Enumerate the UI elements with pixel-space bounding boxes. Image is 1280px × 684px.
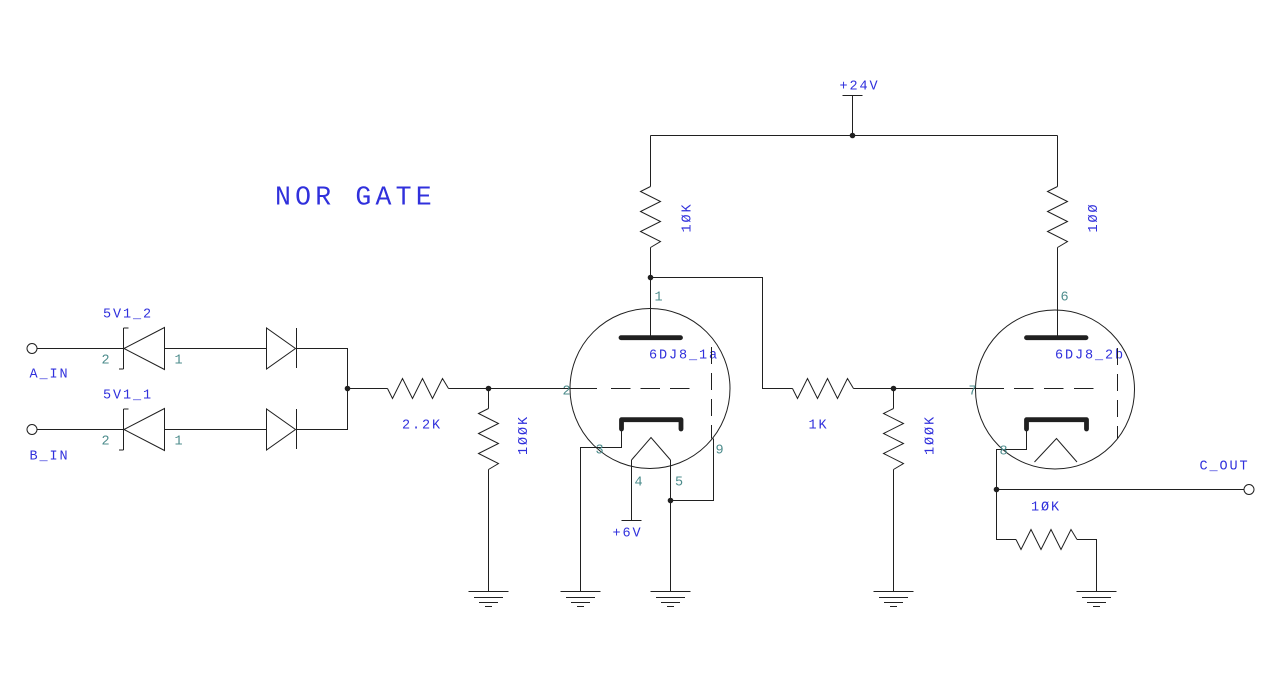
svg-text:5V1_2: 5V1_2: [103, 308, 153, 323]
power +24V: [843, 96, 863, 136]
wire R1K to tube2 grid: [854, 388, 1005, 390]
svg-text:1ØØK: 1ØØK: [517, 415, 532, 455]
power +6V: [622, 520, 642, 522]
tube2 cathode lead: [997, 431, 1027, 490]
ground (below 100K right): [874, 592, 914, 607]
svg-text:1: 1: [175, 435, 185, 450]
svg-text:7: 7: [969, 385, 979, 400]
svg-text:4: 4: [635, 476, 645, 491]
wire plate1 to R1K: [651, 278, 793, 389]
resistor 10K (cathode): [997, 490, 1097, 592]
tube2 cathode bar: [1027, 420, 1087, 429]
svg-text:+24V: +24V: [840, 80, 880, 95]
terminal B_IN: [27, 425, 37, 435]
tube2 shield (dashed): [1117, 348, 1119, 439]
ground (tube1 heater): [651, 592, 691, 607]
svg-text:NOR GATE: NOR GATE: [275, 183, 436, 213]
tube 6DJ8_1a envelope: [570, 309, 730, 469]
node plate junction: [648, 275, 654, 281]
svg-text:1ØK: 1ØK: [1031, 501, 1061, 516]
wire R2.2K to tube1 grid: [449, 388, 598, 390]
resistor 10K (plate load): [641, 136, 661, 278]
svg-text:6: 6: [1061, 291, 1071, 306]
wire junction to R 2.2K: [348, 388, 388, 390]
wire diode B to junction: [297, 389, 348, 430]
svg-text:8: 8: [1000, 445, 1010, 460]
resistor 100K (left): [479, 389, 499, 592]
node pin5/pin9 junction: [668, 498, 674, 504]
node +24V junction: [850, 133, 856, 139]
resistor 100K (right): [884, 389, 904, 592]
diode row B: [267, 409, 297, 450]
tube2 plate bar: [1027, 335, 1087, 340]
resistor 100 (tube2 plate load): [1048, 136, 1068, 338]
zener diode 5V1_1: [119, 409, 165, 451]
ground (tube1 cathode): [561, 592, 601, 607]
tube1 cathode bar: [622, 420, 682, 429]
tube1 plate bar: [621, 335, 681, 340]
tube1 heater leg pin5: [670, 460, 672, 592]
resistor 2.2K: [388, 379, 449, 399]
svg-text:B_IN: B_IN: [30, 450, 70, 465]
svg-text:1: 1: [655, 291, 665, 306]
tube2 heater: [1035, 439, 1078, 463]
terminal C_OUT: [1244, 485, 1254, 495]
tube1 heater: [632, 438, 671, 461]
svg-text:1K: 1K: [809, 419, 829, 434]
svg-text:5V1_1: 5V1_1: [103, 389, 153, 404]
node grid junction 1: [486, 386, 492, 392]
tube1 heater leg pin4: [631, 460, 633, 521]
tube2 grid (dashed): [1014, 388, 1094, 390]
svg-text:2: 2: [102, 435, 112, 450]
svg-text:3: 3: [596, 444, 606, 459]
tube1 cathode lead: [581, 431, 622, 592]
svg-text:1: 1: [175, 354, 185, 369]
wire A_IN lead: [37, 348, 124, 350]
node cathode output junction: [994, 487, 1000, 493]
svg-text:2: 2: [102, 354, 112, 369]
svg-text:2: 2: [563, 385, 573, 400]
wire +24V rail: [651, 135, 1058, 137]
zener diode 5V1_2: [119, 328, 165, 370]
wire pin9 to pin5: [671, 439, 714, 501]
svg-text:A_IN: A_IN: [30, 368, 70, 383]
svg-text:1ØK: 1ØK: [681, 202, 696, 232]
svg-text:6DJ8_2b: 6DJ8_2b: [1055, 349, 1125, 364]
resistor 1K: [793, 379, 854, 399]
ground (below 10K cathode): [1077, 592, 1117, 607]
svg-text:5: 5: [675, 476, 685, 491]
tube1 shield (dashed): [711, 347, 713, 439]
diode row A: [267, 328, 297, 369]
wire zener to diode row A: [165, 348, 267, 350]
wire to C_OUT: [997, 489, 1245, 491]
svg-text:1ØØ: 1ØØ: [1087, 202, 1102, 232]
svg-text:2.2K: 2.2K: [402, 419, 442, 434]
tube1 grid (dashed): [611, 388, 690, 390]
node diode junction: [345, 386, 351, 392]
svg-text:C_OUT: C_OUT: [1200, 460, 1250, 475]
node grid junction 2: [891, 386, 897, 392]
svg-text:9: 9: [716, 444, 726, 459]
svg-text:6DJ8_1a: 6DJ8_1a: [649, 349, 719, 364]
tube 6DJ8_2b envelope: [976, 310, 1135, 469]
svg-text:+6V: +6V: [613, 527, 643, 542]
wire diode A to junction: [297, 349, 348, 389]
terminal A_IN: [27, 344, 37, 354]
tube1 plate lead: [650, 278, 652, 338]
ground (below 100K left): [469, 592, 509, 607]
wire zener to diode row B: [165, 429, 267, 431]
svg-text:1ØØK: 1ØØK: [924, 415, 939, 455]
wire B_IN lead: [37, 429, 124, 431]
